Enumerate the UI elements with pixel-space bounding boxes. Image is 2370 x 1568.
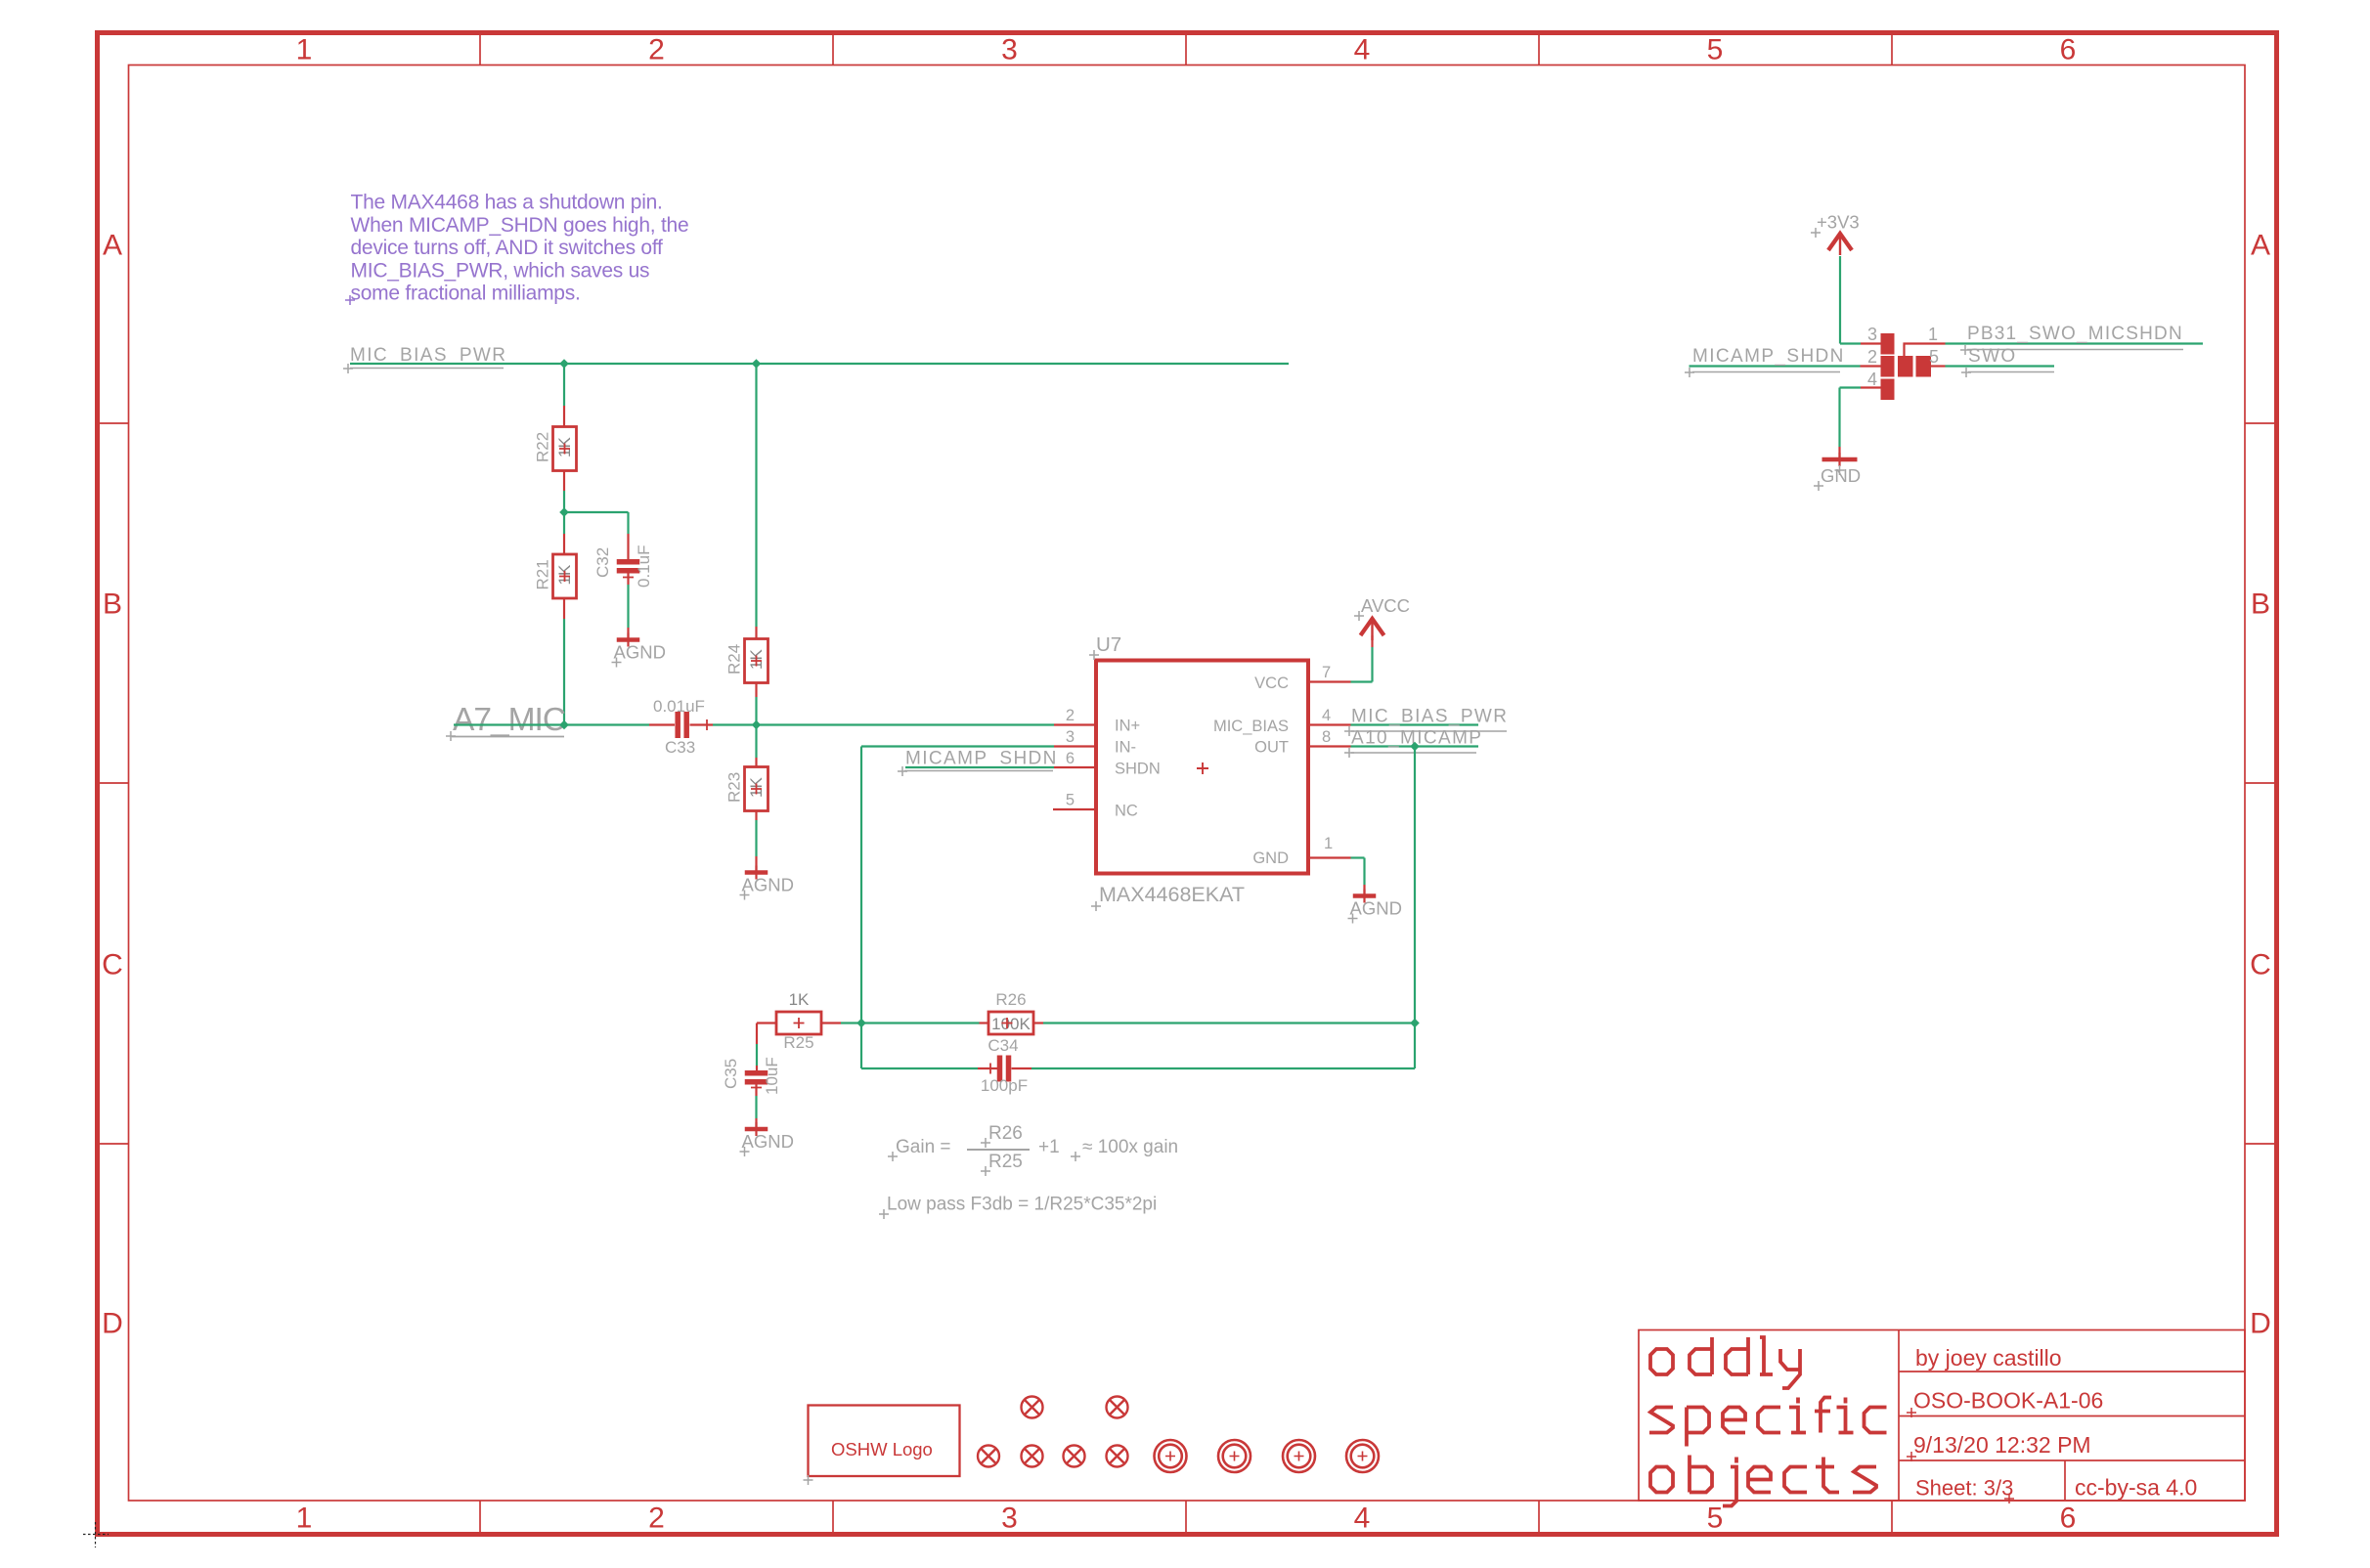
svg-text:2: 2 [648,34,665,66]
svg-text:IN-: IN- [1115,739,1136,757]
svg-text:R26: R26 [988,1123,1023,1144]
pin 5 NC stub [1053,808,1096,810]
power AVCC [1361,619,1384,635]
wire R26 left [861,1022,980,1024]
junction MIC_BIAS_PWR / R22 [559,359,569,369]
svg-text:AVCC: AVCC [1361,595,1410,616]
wire VCC to AVCC [1308,680,1351,682]
svg-text:1: 1 [1324,835,1333,852]
capacitor C33 0.01uF [675,712,680,738]
svg-text:3: 3 [1001,34,1018,66]
resistor R23 1K [745,767,768,811]
svg-text:100pF: 100pF [981,1076,1028,1095]
svg-text:8: 8 [1322,728,1331,746]
svg-text:Low pass F3db = 1/R25*C35*2pi: Low pass F3db = 1/R25*C35*2pi [887,1195,1157,1215]
wire C33 left stub [649,723,675,725]
wire jumper pin4 to GND [1861,386,1881,388]
svg-text:6: 6 [2060,1503,2077,1535]
resistor R22 1K [553,427,577,471]
svg-text:R25: R25 [988,1152,1023,1172]
svg-text:VCC: VCC [1254,675,1289,692]
wire IN- to feedback [1054,745,1096,747]
svg-text:9/13/20 12:32 PM: 9/13/20 12:32 PM [1913,1432,2091,1458]
svg-text:10uF: 10uF [763,1057,781,1095]
ground AGND (C32) [617,637,640,642]
svg-text:B: B [103,588,122,621]
wire C32 to AGND [627,574,629,586]
svg-text:MIC_BIAS_PWR: MIC_BIAS_PWR [350,345,506,366]
wire R23 to AGND [755,811,757,821]
svg-text:MAX4468EKAT: MAX4468EKAT [1099,883,1245,906]
mounting holes [1155,1440,1187,1472]
svg-text:4: 4 [1322,707,1331,724]
ground AGND (U7) [1353,893,1377,898]
jumper SJ1 pad 2 [1881,356,1895,377]
resistor R25 1K [776,1012,821,1034]
wire A10_MICAMP (pin8) [1308,745,1351,747]
wire R21 to A7_MIC [563,598,565,619]
wire R25 right [821,1022,841,1024]
svg-text:5: 5 [1066,792,1075,809]
svg-text:MICAMP_SHDN: MICAMP_SHDN [1692,346,1845,367]
jumper SJ1 pad 4 [1881,379,1895,401]
svg-text:some fractional milliamps.: some fractional milliamps. [351,283,581,305]
svg-text:R23: R23 [725,772,744,803]
svg-text:6: 6 [1066,750,1075,767]
svg-text:AGND: AGND [742,875,794,895]
svg-text:OUT: OUT [1254,739,1289,757]
svg-text:IN+: IN+ [1115,718,1140,735]
svg-text:4: 4 [1867,370,1877,389]
wire +3V3 to jumper pin3 [1839,256,1841,344]
svg-text:R21: R21 [534,559,552,589]
wire node to R23 [755,725,757,759]
svg-text:≈ 100x gain: ≈ 100x gain [1082,1137,1178,1157]
svg-text:D: D [2250,1308,2271,1340]
sheet origin cross [83,1534,109,1536]
svg-text:C33: C33 [665,738,695,757]
ground GND [1822,457,1858,462]
svg-text:device turns off, AND it switc: device turns off, AND it switches off [351,237,664,259]
OSHW Logo box [809,1406,960,1477]
svg-text:SWO: SWO [1968,346,2017,367]
junction IN- / R25 / R26 [856,1019,866,1028]
wire MIC_BIAS_PWR horizontal [350,363,1289,365]
jumper SJ1 pad 3 [1881,333,1895,355]
svg-text:1: 1 [296,34,313,66]
jumper SJ1 pad 5 [1916,356,1932,377]
svg-text:A7_MIC: A7_MIC [453,702,565,738]
junction A7_MIC / R21 [559,720,569,730]
svg-text:2: 2 [1066,707,1075,724]
svg-text:0.1uF: 0.1uF [635,545,653,588]
svg-text:4: 4 [1354,1503,1371,1535]
svg-text:R25: R25 [783,1033,813,1052]
svg-text:When MICAMP_SHDN goes high, th: When MICAMP_SHDN goes high, the [351,214,689,237]
junction R21/R22/C32 node [559,507,569,517]
svg-text:GND: GND [1252,849,1289,867]
svg-text:by joey castillo: by joey castillo [1915,1345,2062,1371]
svg-text:D: D [102,1308,123,1340]
svg-text:A: A [2251,230,2270,262]
resistor R24 1K [745,639,768,683]
svg-text:cc-by-sa 4.0: cc-by-sa 4.0 [2075,1475,2197,1501]
wire MICAMP_SHDN to jumper pin2 [1690,365,1861,367]
fiducial marks [1022,1397,1043,1418]
wire C34 right [1012,1067,1032,1069]
svg-text:AGND: AGND [1350,898,1402,919]
wire MIC_BIAS_PWR to R24 [755,364,757,627]
svg-text:MIC_BIAS_PWR: MIC_BIAS_PWR [1351,707,1508,727]
wire OUT down to R26/C34 [1414,747,1416,1069]
resistor R26 100K [988,1012,1033,1034]
svg-text:3: 3 [1001,1503,1018,1535]
svg-text:C34: C34 [987,1036,1018,1055]
formula fraction bar [967,1149,1030,1151]
junction MIC_BIAS_PWR / R24 [752,359,762,369]
svg-text:1: 1 [296,1503,313,1535]
svg-text:NC: NC [1115,803,1138,820]
capacitor C32 0.1uF [617,559,640,565]
svg-text:C: C [2250,949,2271,981]
svg-text:6: 6 [2060,34,2077,66]
svg-text:MIC_BIAS: MIC_BIAS [1213,718,1289,735]
svg-text:1K: 1K [789,990,810,1009]
svg-text:R22: R22 [534,432,552,462]
svg-text:5: 5 [1707,1503,1724,1535]
svg-text:+3V3: +3V3 [1817,212,1860,233]
svg-text:The MAX4468 has a shutdown pin: The MAX4468 has a shutdown pin. [351,192,663,214]
resistor R21 1K [553,554,577,598]
svg-text:U7: U7 [1096,633,1121,656]
svg-text:B: B [2251,588,2270,621]
svg-text:MIC_BIAS_PWR, which saves us: MIC_BIAS_PWR, which saves us [351,259,650,282]
svg-text:5: 5 [1707,34,1724,66]
svg-text:OSO-BOOK-A1-06: OSO-BOOK-A1-06 [1913,1388,2103,1414]
svg-text:3: 3 [1066,728,1075,746]
svg-text:GND: GND [1821,465,1861,486]
jumper SJ1 common pad [1898,356,1913,377]
wire C35 to AGND [755,1085,757,1097]
wire node to C32 [564,511,629,513]
power +3V3 [1828,234,1852,250]
svg-text:+1: +1 [1038,1137,1060,1157]
logo: oddly specific objects [1650,1349,1673,1374]
op-amp U7 body [1096,661,1308,874]
svg-text:SHDN: SHDN [1115,761,1161,778]
ground AGND (R23) [745,870,768,875]
wire R26 right [1033,1022,1044,1024]
svg-text:Gain =: Gain = [896,1137,951,1157]
svg-text:3: 3 [1867,325,1877,344]
svg-text:PB31_SWO_MICSHDN: PB31_SWO_MICSHDN [1967,324,2183,344]
wire jumper pin1 [1905,344,1946,357]
svg-text:5: 5 [1929,347,1939,367]
svg-text:0.01uF: 0.01uF [653,697,705,716]
svg-text:A: A [103,230,122,262]
wire R22 to node [563,471,565,492]
capacitor C34 100pF [997,1056,1003,1082]
svg-text:R24: R24 [725,644,744,675]
svg-text:AGND: AGND [614,642,666,663]
wire C34 left [861,1067,978,1069]
wire GND pin1 to AGND [1308,856,1351,858]
ground AGND (C35) [745,1127,768,1132]
svg-text:1: 1 [1928,325,1938,344]
svg-text:2: 2 [648,1503,665,1535]
title block grid [1639,1330,2245,1502]
capacitor C35 10uF [745,1070,768,1076]
svg-text:C35: C35 [722,1059,740,1089]
junction OUT / feedback [1410,742,1420,752]
wire C33 to IN+ [690,723,714,725]
wire MIC_BIAS_PWR (pin4) [1308,723,1351,725]
svg-text:Sheet: 3/3: Sheet: 3/3 [1915,1476,2013,1501]
wire A7_MIC [454,723,649,725]
svg-text:AGND: AGND [742,1131,794,1152]
svg-text:R26: R26 [995,990,1026,1009]
wire R25 left to C35 [757,1022,777,1024]
svg-text:4: 4 [1354,34,1371,66]
svg-text:C: C [102,949,123,981]
wire node to R21 [563,512,565,534]
wire MIC_BIAS_PWR to R22 [563,364,565,406]
svg-text:MICAMP_SHDN: MICAMP_SHDN [905,749,1058,769]
svg-text:C32: C32 [593,547,612,578]
wire jumper pin5 SWO [1931,365,1946,367]
svg-text:2: 2 [1867,347,1877,367]
wire MICAMP_SHDN to SHDN [905,766,1054,768]
svg-text:7: 7 [1322,664,1331,681]
wire R24 to A7_MIC node [755,683,757,698]
svg-text:OSHW Logo: OSHW Logo [831,1439,933,1459]
svg-text:100K: 100K [991,1015,1031,1033]
junction C33 / R24 / R23 [752,720,762,730]
junction R26 right [1410,1019,1420,1028]
